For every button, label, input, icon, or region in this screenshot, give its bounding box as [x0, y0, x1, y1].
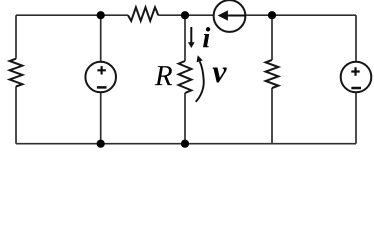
junction dot bottom B [181, 140, 189, 148]
wire middle branch upper [184, 15, 186, 61]
wire right upper [355, 15, 357, 62]
minus sign (right source) [351, 87, 361, 90]
wire left lower [15, 87, 17, 144]
wire bottom [16, 143, 356, 145]
label i [203, 27, 210, 47]
wire right-resistor branch upper [271, 15, 273, 60]
voltage source circle (right) [341, 62, 372, 93]
current arrow i [188, 27, 195, 48]
wire top-left segment [16, 14, 128, 16]
wire top-middle segment [158, 14, 214, 16]
wire right-resistor branch lower [271, 88, 273, 144]
resistor R (middle branch) [179, 61, 192, 93]
wire left-source branch upper [100, 15, 102, 62]
current source circle (top) [214, 0, 246, 32]
wire right lower [355, 92, 357, 143]
wire left-source branch lower [100, 92, 102, 143]
junction dot top B [181, 11, 189, 19]
voltage source circle (left) [85, 62, 116, 93]
minus sign (left source) [97, 86, 107, 89]
label R [155, 66, 172, 85]
junction dot top A [97, 11, 105, 19]
voltage arrow v [196, 55, 204, 102]
wire top-right segment [245, 14, 356, 16]
resistor (left branch) [10, 59, 23, 87]
junction dot top C [268, 11, 276, 19]
junction dot bottom A [97, 140, 105, 148]
plus sign (right source) [351, 67, 359, 75]
wire left upper [15, 15, 17, 59]
current source arrow [218, 10, 245, 20]
wire middle branch lower [184, 93, 186, 144]
plus sign (left source) [97, 66, 105, 74]
label v [213, 68, 227, 83]
resistor (top branch) [128, 7, 158, 21]
resistor (right branch) [266, 60, 279, 88]
